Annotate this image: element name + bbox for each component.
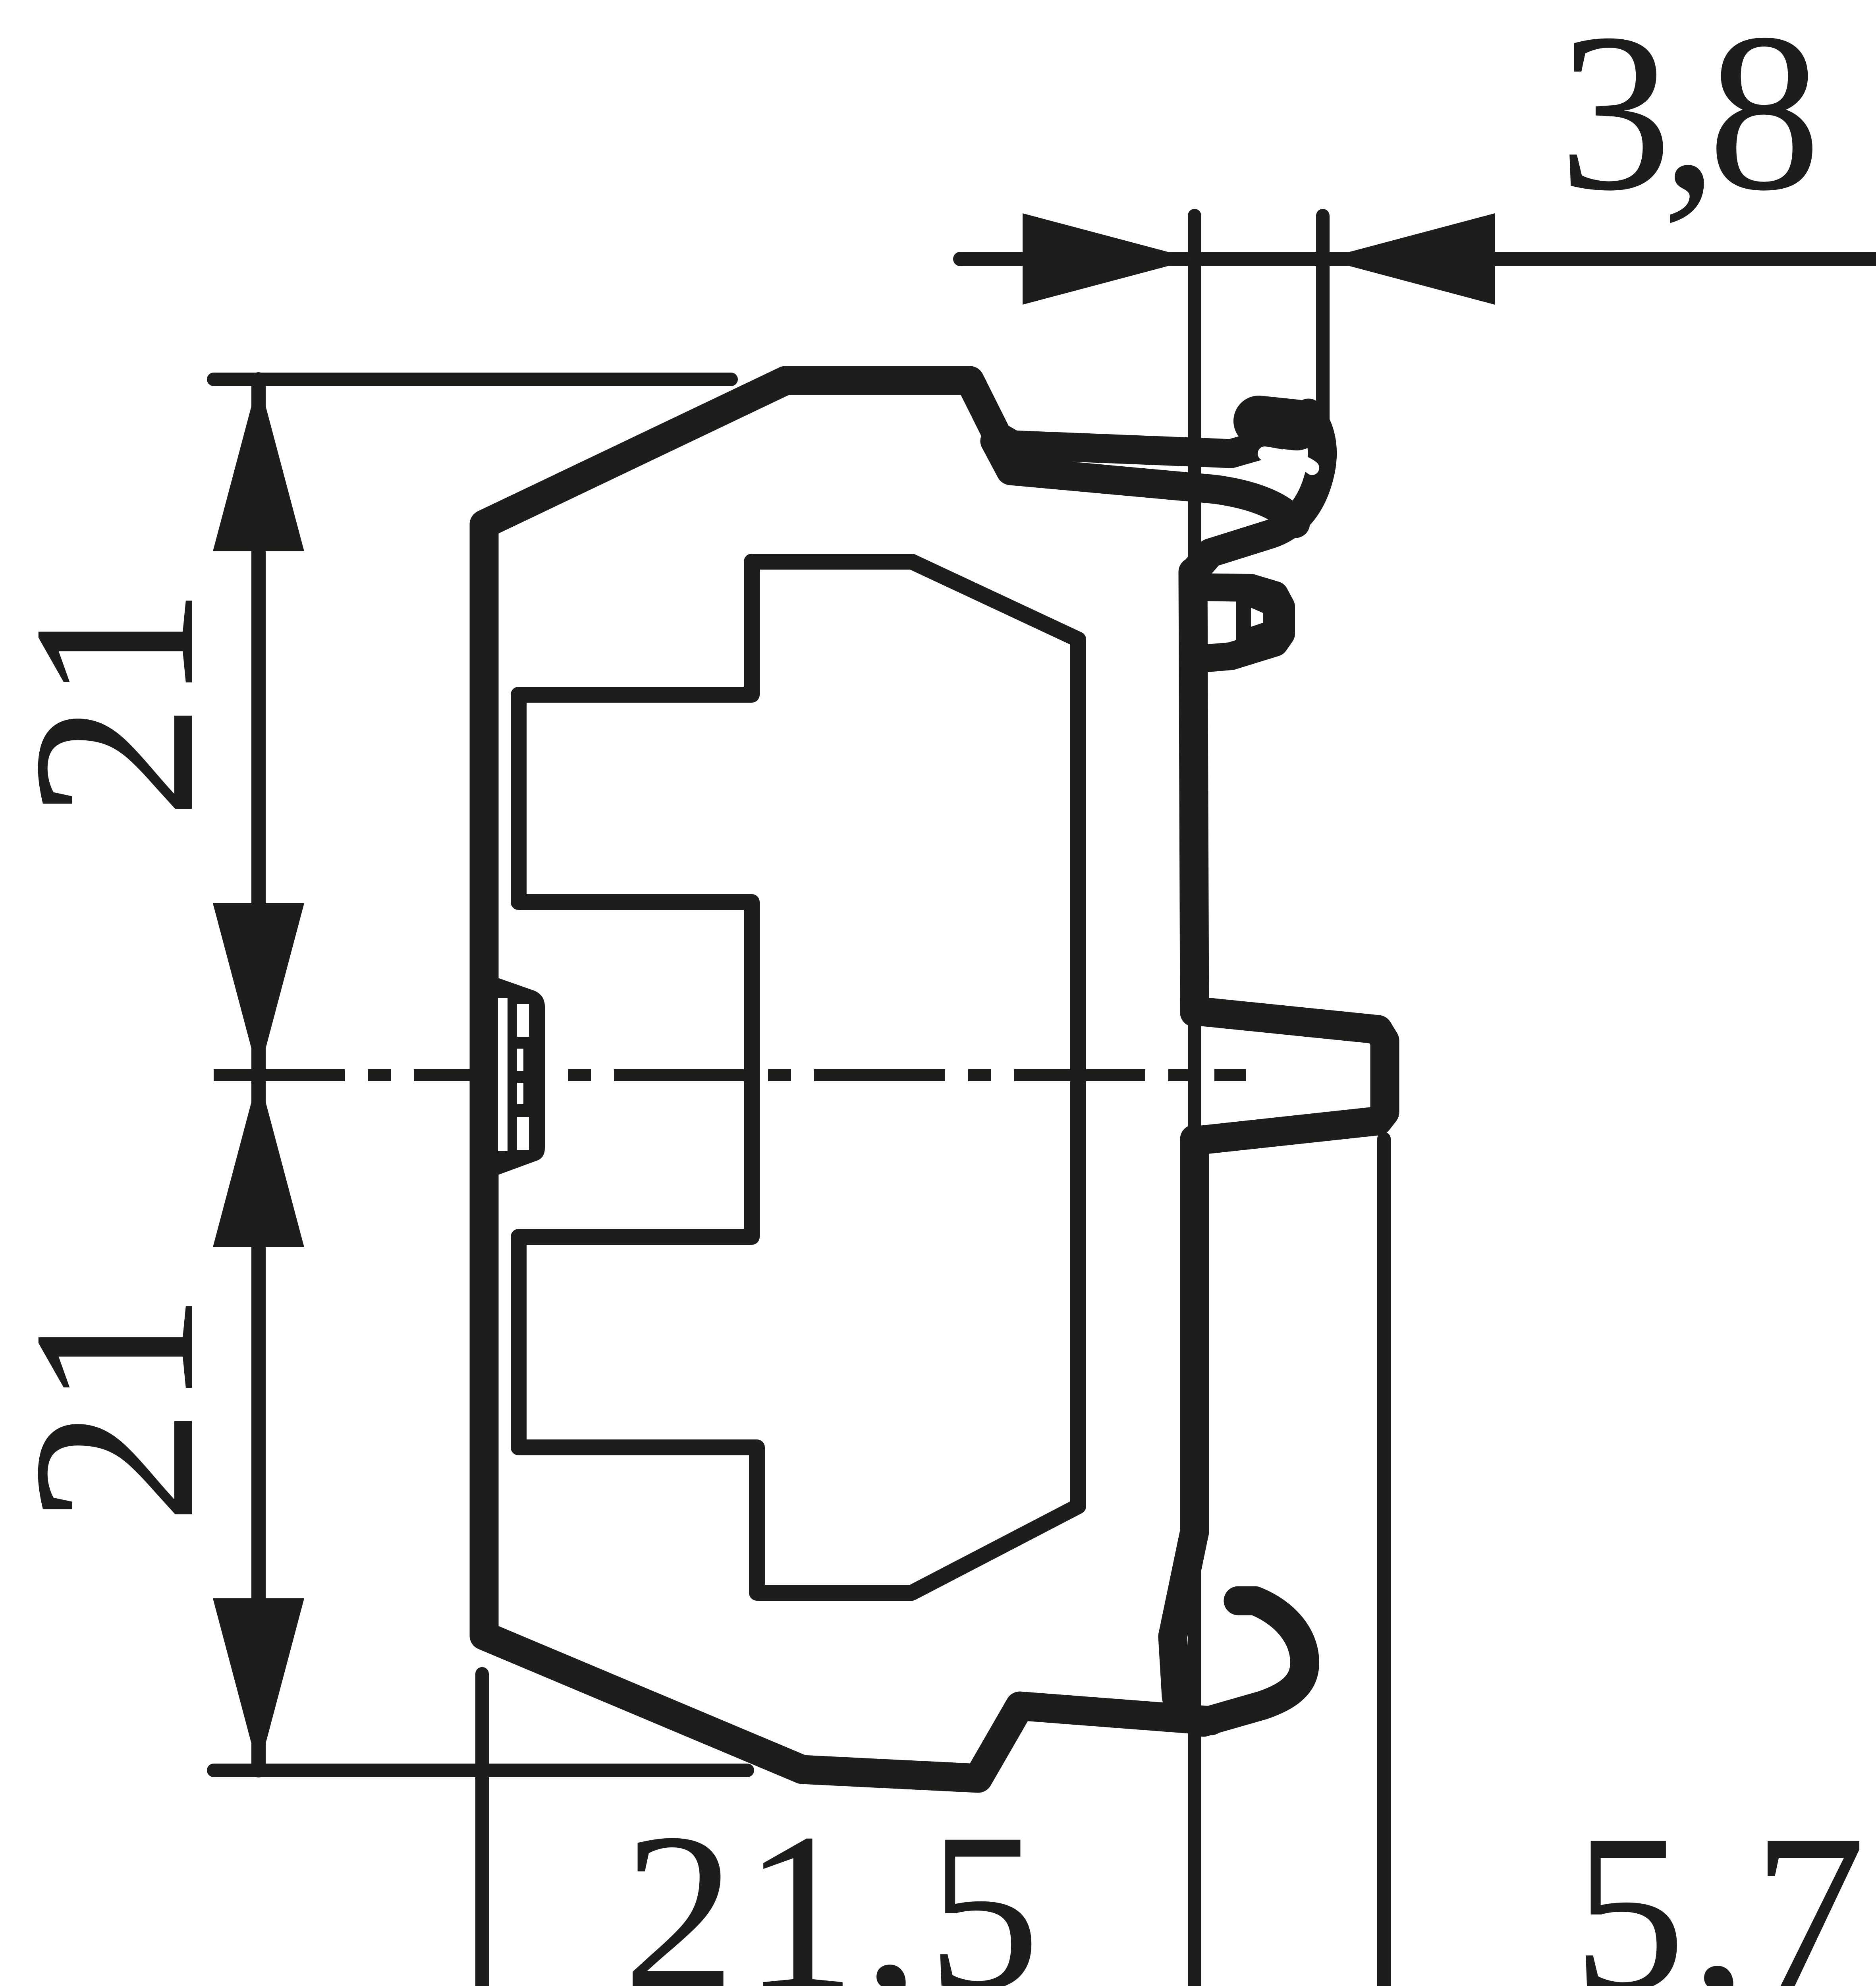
wire 3,8 right extension line [1316, 216, 1330, 431]
component top latch hook blob [1259, 421, 1297, 425]
svg-text:21,5: 21,5 [623, 1787, 1048, 1986]
component bottom latch hook [1203, 1601, 1305, 1722]
wire top latch right descender [1195, 413, 1322, 571]
svg-text:21: 21 [0, 1292, 242, 1524]
wire 5,7 left extension line [1377, 1139, 1391, 1986]
arrow 3,8 left pointing right [1023, 213, 1195, 305]
wire top latch upper arm with curled hook [970, 381, 1270, 454]
wire inner contour polygon [519, 562, 1078, 1593]
wire 21,5 left extension line [475, 1674, 489, 1986]
svg-text:3,8: 3,8 [1559, 0, 1814, 238]
component left latch panel [498, 978, 545, 1175]
svg-text:21: 21 [0, 587, 242, 819]
wire vertical dimension line 21+21 [251, 379, 266, 1770]
arrow 3,8 right pointing left [1323, 213, 1495, 305]
wire top latch white crescent notch [1265, 454, 1312, 468]
component tab (5,7 protrusion) [1195, 1011, 1385, 1141]
arrow 21 second up from centerline [213, 1075, 304, 1247]
wire top extension line [214, 373, 731, 386]
wire centerline dash-dot [214, 1069, 1246, 1081]
wire right edge lower segment with slant [1173, 1139, 1195, 1720]
arrow 21 down to centerline [213, 903, 304, 1075]
component second-latch interior divider [1236, 594, 1275, 651]
component bottom latch outline [1194, 587, 1281, 659]
wire main outline: top edge, left chamfer, left edge, bottom chamfer, bottom edge, step, hook arm [484, 381, 1211, 1778]
wire 3,8 left extension line [1188, 216, 1201, 1986]
wire top latch lower arm [995, 441, 1295, 524]
arrow 21 top up [213, 379, 304, 551]
side view [484, 381, 1385, 1778]
wire bottom extension line [214, 1764, 747, 1777]
arrow 21 second down to bottom [213, 1598, 304, 1770]
wire 3,8 dimension line [960, 252, 1876, 266]
wire right edge upper segment [1193, 572, 1195, 1012]
svg-text:5,7: 5,7 [1573, 1788, 1871, 1986]
